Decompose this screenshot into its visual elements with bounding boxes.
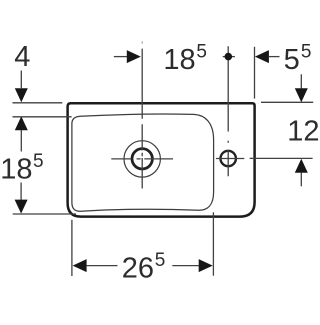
svg-text:5: 5 — [196, 41, 207, 62]
dim 12: bottom extension line (tap centerline extension) — [250, 157, 313, 159]
drain horizontal centerline — [111, 158, 173, 160]
tap hole vertical centerline — [227, 46, 229, 176]
dim 18.5 top: tick through end dot — [223, 56, 235, 58]
dim 12: lower leader — [300, 173, 302, 187]
dim 12: top extension line — [261, 101, 313, 103]
dim 18.5 top: end dot on tap centerline — [225, 53, 233, 61]
dim 18.5 left: lower leader — [20, 183, 22, 200]
inner bowl outline — [72, 114, 214, 211]
dim 18.5 left: down arrow — [15, 200, 28, 214]
svg-text:4: 4 — [14, 41, 30, 73]
drain vertical centerline — [141, 49, 143, 189]
dim 4: vertical leader under text — [20, 71, 22, 89]
drain hole inner circle — [132, 149, 152, 169]
dim 12: up arrow — [295, 159, 308, 173]
dim 5.5: tail line — [269, 56, 280, 58]
dim 12: down arrow — [295, 88, 308, 102]
dim 18.5 left: bottom extension line — [13, 213, 76, 215]
dim 26.5: right dim line segment — [172, 265, 199, 267]
svg-text:26: 26 — [122, 252, 154, 284]
dim 26.5: right extension line — [212, 212, 214, 275]
dim 18.5 top: tail line — [114, 56, 127, 58]
dim 26.5: right arrow — [199, 259, 213, 272]
dim 26.5: left extension line — [71, 220, 73, 276]
svg-text:5: 5 — [284, 44, 300, 76]
dim 4: lower extension line — [13, 116, 72, 118]
dim 26.5: left arrow — [73, 259, 87, 272]
svg-text:18: 18 — [0, 153, 32, 185]
dim 18.5 left: upper leader — [20, 130, 22, 152]
tap hole circle — [221, 151, 236, 166]
drain hole outer circle — [124, 141, 160, 177]
tap hole horizontal centerline — [216, 158, 244, 160]
svg-text:5: 5 — [301, 41, 312, 62]
svg-text:5: 5 — [33, 151, 44, 172]
dim 26.5: left dim line segment — [86, 265, 117, 267]
dim 5.5: right edge extension line — [254, 47, 256, 99]
dim 12: upper leader — [300, 74, 302, 88]
dim 4: up arrow — [15, 116, 28, 130]
dim 18.5 top: right arrow — [127, 50, 141, 63]
dim 4: down arrow — [15, 88, 28, 102]
drain centerline top dash — [141, 41, 143, 43]
svg-text:12: 12 — [287, 116, 319, 148]
dim 5.5: left arrow — [255, 50, 269, 63]
svg-text:5: 5 — [155, 250, 166, 271]
svg-text:18: 18 — [163, 44, 195, 76]
washbasin outer rim outline — [68, 103, 255, 216]
dim 4: upper extension line — [13, 102, 63, 104]
